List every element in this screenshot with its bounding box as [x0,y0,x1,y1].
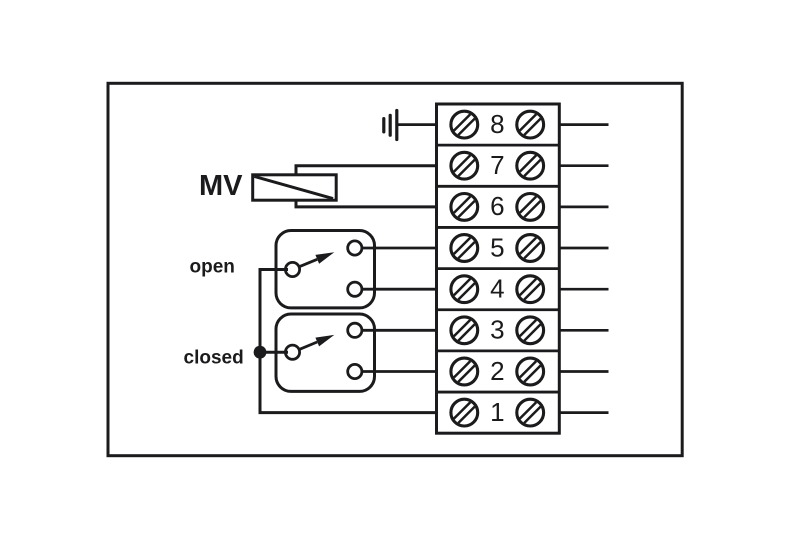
wire switch S2 top contact to terminal 3 [355,329,437,332]
switch S2 (closed) body [276,314,375,391]
terminal 2 left screw [451,358,478,385]
terminal 7 right screw [517,152,544,179]
wire switch S1 top contact to terminal 5 [355,247,437,250]
switch S1 bottom contact [348,282,362,296]
terminal 4 right stub wire [559,288,608,291]
MV coil diagonal stroke [254,176,333,198]
svg-text:closed: closed [184,348,244,369]
terminal 4 right screw [517,276,544,303]
wire terminal 7 to MV coil top / terminal 6 to MV coil bottom [296,166,437,207]
terminal 5 right screw [517,235,544,262]
switch S2 top contact [348,323,362,337]
terminal 3 left screw [451,317,478,344]
terminal 4 left screw [451,276,478,303]
terminal 8 right stub wire [559,123,608,126]
terminal block TB1 body [437,104,560,433]
MV motor valve coil body [253,175,337,200]
terminal block separator between terminal 7 and 6 [437,185,560,188]
terminal 1 right screw [517,399,544,426]
terminal 3 right stub wire [559,329,608,332]
svg-text:7: 7 [490,150,504,180]
terminal 6 left screw [451,194,478,221]
svg-text:2: 2 [490,356,504,386]
wire switch S2 bottom contact to terminal 2 [355,370,437,373]
svg-text:3: 3 [490,315,504,345]
svg-text:1: 1 [490,397,504,427]
switch S2 bottom contact [348,364,362,378]
svg-text:6: 6 [490,191,504,221]
terminal 7 right stub wire [559,164,608,167]
svg-text:4: 4 [490,274,504,304]
switch S1 common pole [285,262,299,276]
switch S2 common pole [285,345,299,359]
terminal block separator between terminal 2 and 1 [437,391,560,394]
wire switch S1 bottom contact to terminal 4 [355,288,437,291]
terminal block separator between terminal 4 and 3 [437,308,560,311]
wire common bus: open pole / closed pole down to terminal 1 [260,270,437,413]
terminal 2 right screw [517,358,544,385]
terminal 5 right stub wire [559,247,608,250]
outer border frame of diagram [108,83,682,455]
svg-text:MV: MV [199,170,243,202]
terminal 2 right stub wire [559,370,608,373]
terminal 1 right stub wire [559,411,608,414]
switch S1 actuator arrow [300,252,335,266]
junction node on common bus at closed [254,346,267,359]
terminal 6 right stub wire [559,206,608,209]
terminal block separator between terminal 5 and 4 [437,267,560,270]
switch S2 actuator arrow [300,335,335,349]
terminal block separator between terminal 8 and 7 [437,144,560,147]
terminal 7 left screw [451,152,478,179]
terminal 8 right screw [517,111,544,138]
terminal block separator between terminal 3 and 2 [437,349,560,352]
wire terminal 8 to ground [397,123,437,126]
terminal 5 left screw [451,235,478,262]
terminal 3 right screw [517,317,544,344]
switch S1 (open) body [276,231,375,308]
terminal 8 left screw [451,111,478,138]
svg-text:8: 8 [490,109,504,139]
terminal 1 left screw [451,399,478,426]
terminal 6 right screw [517,194,544,221]
terminal block separator between terminal 6 and 5 [437,226,560,229]
svg-text:open: open [190,257,235,278]
ground (chassis earth) symbol [384,111,397,140]
svg-text:5: 5 [490,232,504,262]
wire closed pole to common bus [260,351,288,354]
switch S1 top contact [348,241,362,255]
